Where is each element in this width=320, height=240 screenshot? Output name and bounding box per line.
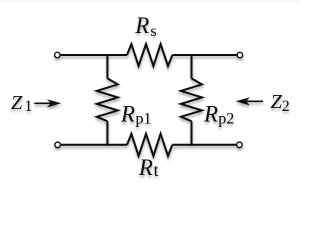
- svg-text:R: R: [138, 155, 153, 180]
- label Z1: [11, 92, 33, 115]
- terminal bottom-left (open circle): [55, 142, 61, 148]
- label Rs value: [134, 13, 156, 40]
- svg-text:p2: p2: [218, 111, 234, 128]
- arrow Z2 (impedance looking left into port 2): [236, 97, 263, 105]
- svg-text:R: R: [134, 13, 149, 38]
- wire node C down to Rp2: [191, 55, 193, 78]
- svg-text:1: 1: [24, 98, 32, 115]
- resistor Rp1: [97, 78, 118, 121]
- svg-text:Z: Z: [271, 91, 283, 113]
- svg-text:t: t: [154, 160, 159, 180]
- svg-text:s: s: [150, 23, 156, 40]
- terminal bottom-right (open circle): [237, 142, 243, 148]
- svg-text:Z: Z: [11, 92, 23, 114]
- svg-text:p1: p1: [136, 111, 152, 128]
- wire Rp1 down to node B: [106, 121, 108, 145]
- svg-text:2: 2: [282, 98, 290, 115]
- svg-text:R: R: [203, 102, 218, 127]
- wire bottom-left (terminal 3 to node B): [61, 144, 127, 146]
- wire Rp2 down to node D: [191, 121, 193, 145]
- resistor Rs: [127, 44, 172, 66]
- svg-text:R: R: [120, 102, 135, 127]
- arrow Z1 (impedance looking right into port 1): [34, 99, 61, 107]
- label Rp1 value: [120, 102, 152, 128]
- label Rp2 value: [203, 102, 234, 128]
- wire top-right (Rs to terminal 2): [172, 54, 236, 56]
- label Rt value: [138, 155, 159, 180]
- wire node A down to Rp1: [106, 55, 108, 78]
- label Z2: [271, 91, 290, 115]
- wire top-left (terminal 1 to node A): [61, 54, 128, 56]
- terminal top-left (open circle): [55, 52, 61, 58]
- terminal top-right (open circle): [237, 52, 243, 58]
- resistor Rt: [127, 134, 172, 156]
- wire bottom-right (Rt to terminal 4): [172, 144, 236, 146]
- resistor Rp2: [181, 78, 202, 121]
